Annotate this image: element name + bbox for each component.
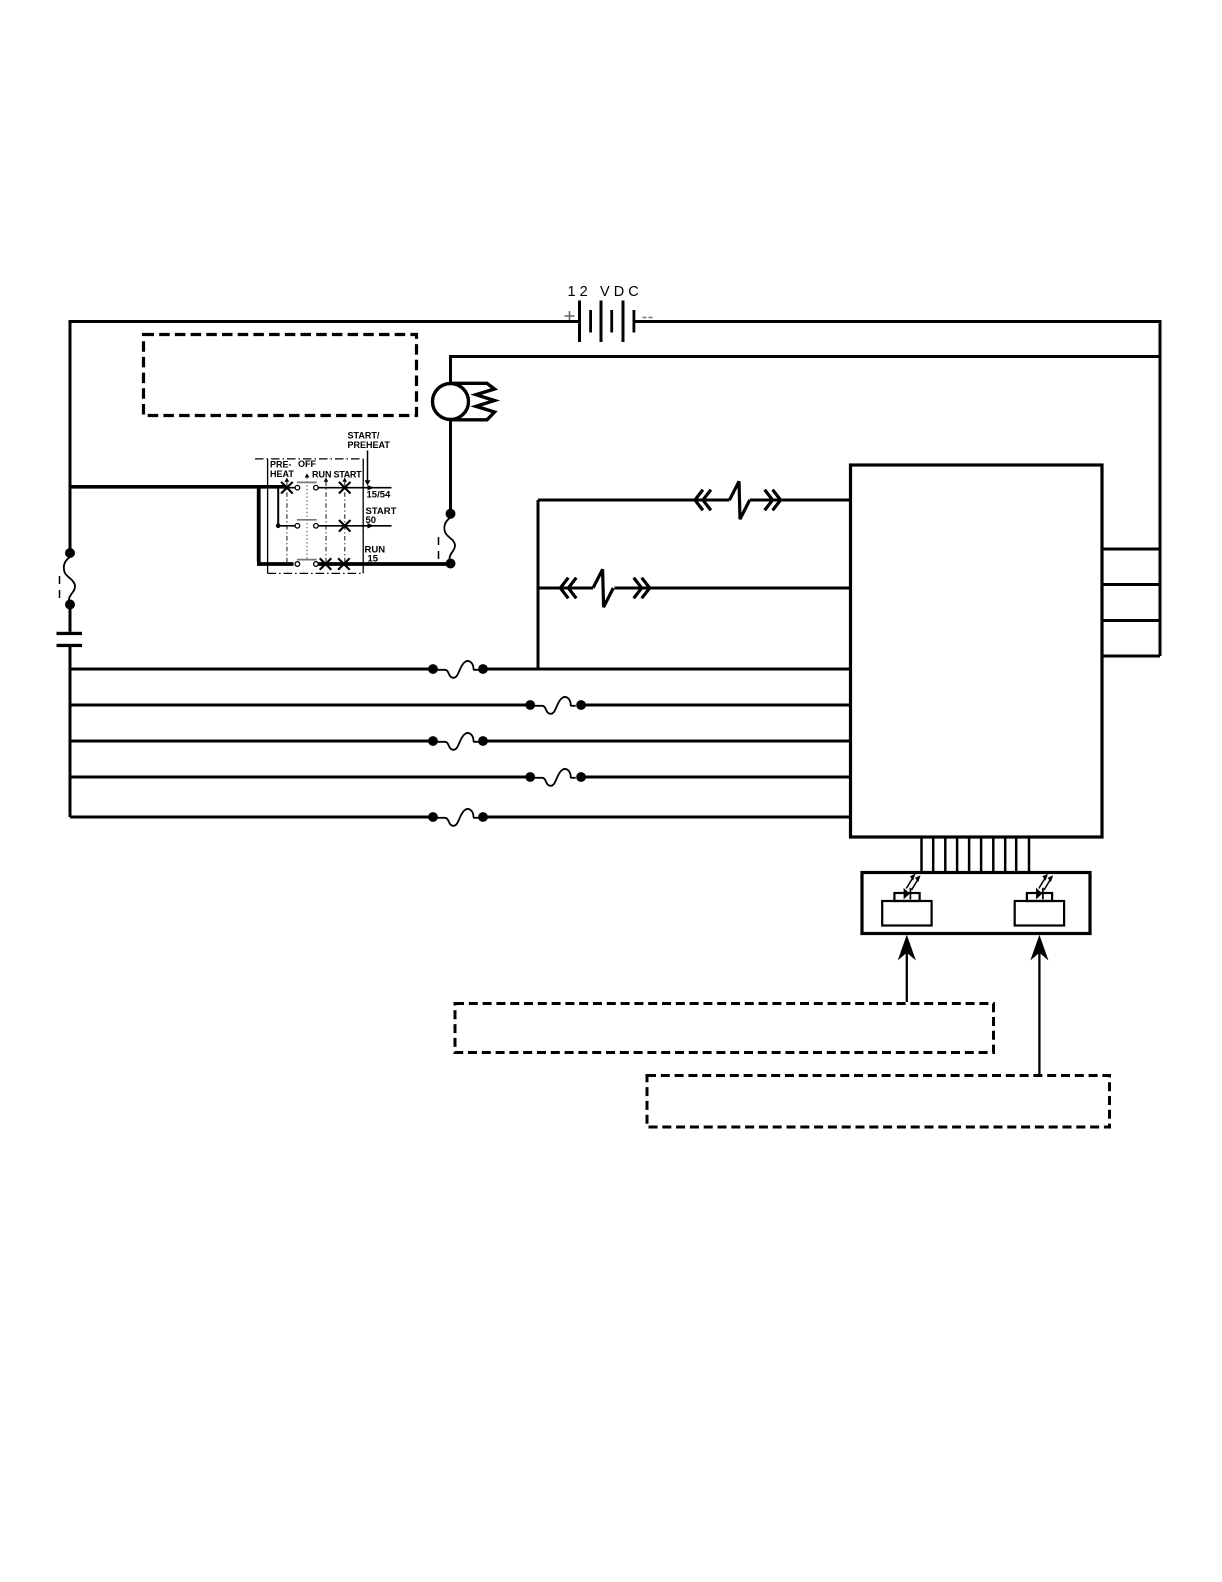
harness line row2 with connector break <box>538 569 851 607</box>
svg-text:15: 15 <box>368 554 379 565</box>
wire left bus vertical (bottom) <box>69 647 72 817</box>
ribbon cable to connector <box>922 837 1030 873</box>
OFF bridge bar row 3 <box>297 559 317 561</box>
callout arrow right <box>1030 935 1048 1075</box>
switch box left border <box>267 459 269 573</box>
dashed callout box 2 <box>647 1076 1110 1128</box>
capacitor C1 <box>57 632 83 647</box>
wire lamp to fuse <box>449 420 452 510</box>
right terminal rung 3 <box>1102 619 1160 622</box>
wire left bus vertical (top) <box>69 320 72 550</box>
svg-text:HEAT: HEAT <box>270 469 294 479</box>
switch box top border dash-dot <box>255 458 363 460</box>
wire lamp drop <box>449 355 452 384</box>
indicator lamp with heater element <box>433 383 495 420</box>
fuse F2 (lamp circuit) <box>439 509 456 569</box>
LED module left <box>882 874 931 926</box>
svg-text:15/54: 15/54 <box>367 490 391 501</box>
position column OFF (dotted) <box>305 473 310 560</box>
wire right bus vertical <box>1159 320 1162 656</box>
battery B1 12 VDC <box>565 284 653 342</box>
right terminal rung 2 <box>1102 583 1160 586</box>
contact row RUN 15 (thick) <box>257 558 446 570</box>
right terminal rung 4 <box>1102 655 1160 658</box>
wire harness riser x538 <box>537 500 540 669</box>
wire row1 to row2 <box>277 488 279 526</box>
callout arrow left <box>898 935 916 1002</box>
label RUN 15 <box>365 545 386 565</box>
LED module right <box>1015 874 1064 926</box>
wire thick feed to ignition switch <box>70 485 285 489</box>
display connector box <box>862 873 1090 934</box>
position column START <box>342 478 347 563</box>
switch box right border <box>362 459 364 573</box>
label START 50 <box>366 506 397 526</box>
dashed callout box 1 <box>455 1004 994 1053</box>
dashed box (component label placeholder) <box>144 335 417 416</box>
fused line 4 <box>70 769 851 786</box>
controller box U1 <box>851 465 1103 837</box>
fused line 5 <box>70 809 851 826</box>
right terminal rung 1 <box>1102 548 1160 551</box>
contact row START 50 <box>278 520 391 532</box>
fused line 3 <box>70 733 851 750</box>
fused line 2 <box>70 697 851 714</box>
svg-text:PREHEAT: PREHEAT <box>348 440 391 450</box>
svg-text:12 VDC: 12 VDC <box>568 284 643 300</box>
svg-text:PRE-: PRE- <box>270 460 292 470</box>
ignition switch S1 <box>255 459 446 574</box>
label START/PREHEAT with pointer arrow <box>348 431 391 486</box>
OFF bridge bar row 2 <box>297 519 317 521</box>
wire fuse to capacitor <box>69 605 72 632</box>
OFF bridge bar row 1 <box>297 481 317 483</box>
svg-text:50: 50 <box>366 515 377 526</box>
svg-text:RUN: RUN <box>312 469 332 479</box>
wire switch common drop <box>257 487 261 562</box>
wire lamp to right bus <box>451 355 1161 358</box>
wire battery positive to left bus <box>70 320 579 323</box>
svg-text:START: START <box>334 469 363 479</box>
switch box bottom border dash-dot <box>268 572 364 574</box>
fused line 1 <box>70 661 851 678</box>
fuse F1 (main) <box>60 548 76 610</box>
harness line row1 with connector break <box>538 481 851 519</box>
wire battery negative to right bus <box>634 320 1160 323</box>
contact row 15/54 <box>281 482 391 494</box>
position column PRE-HEAT <box>285 478 290 562</box>
svg-text:OFF: OFF <box>298 459 316 469</box>
position column RUN <box>324 478 329 563</box>
